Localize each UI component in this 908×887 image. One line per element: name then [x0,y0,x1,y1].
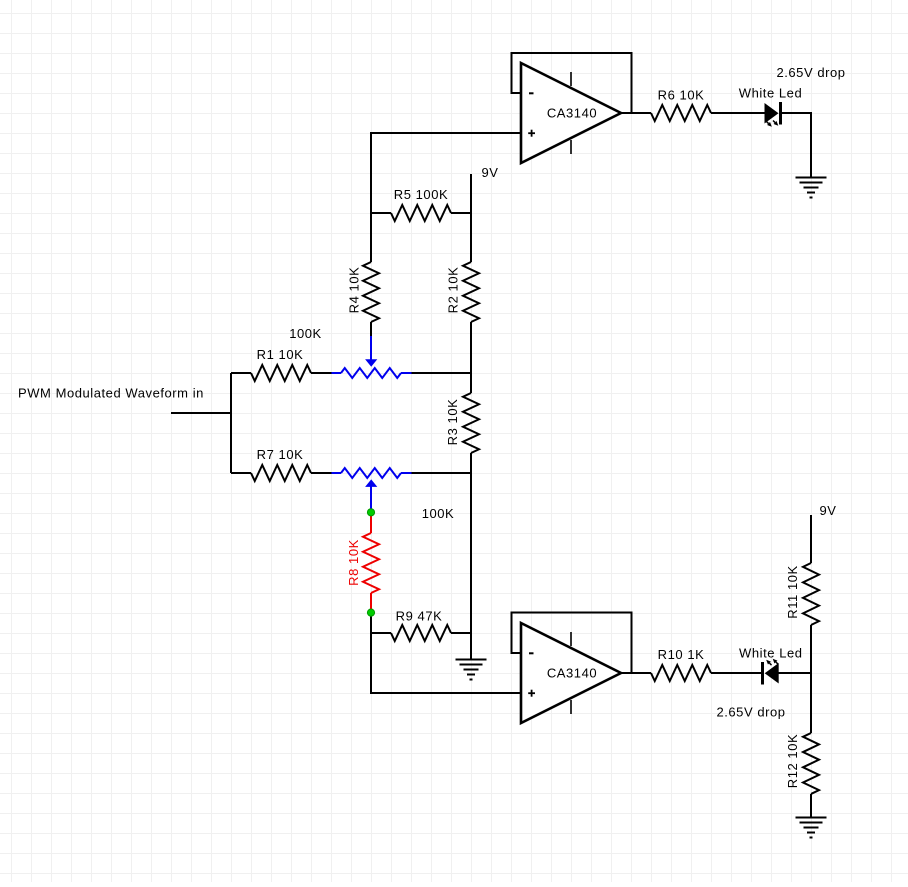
svg-text:CA3140: CA3140 [547,105,597,120]
svg-text:R7 10K: R7 10K [257,447,304,462]
svg-text:R9 47K: R9 47K [396,608,443,623]
svg-text:White Led: White Led [739,645,802,660]
svg-text:2.65V drop: 2.65V drop [776,65,845,80]
svg-text:R2 10K: R2 10K [446,267,461,314]
svg-text:R3 10K: R3 10K [445,399,460,446]
svg-text:R8 10K: R8 10K [346,539,361,586]
svg-text:CA3140: CA3140 [547,665,597,680]
svg-text:9V: 9V [819,503,836,518]
svg-text:100K: 100K [422,506,455,521]
svg-text:R12 10K: R12 10K [785,734,800,788]
svg-text:100K: 100K [289,326,322,341]
svg-text:R4 10K: R4 10K [347,267,362,314]
svg-text:White Led: White Led [739,86,802,101]
svg-text:R10 1K: R10 1K [658,647,705,662]
svg-text:9V: 9V [481,165,498,180]
svg-text:R5 100K: R5 100K [394,187,448,202]
svg-text:R11 10K: R11 10K [785,565,800,618]
svg-text:2.65V drop: 2.65V drop [716,705,785,720]
svg-text:R1 10K: R1 10K [257,347,304,362]
svg-text:R6 10K: R6 10K [658,88,705,103]
svg-text:PWM Modulated Waveform in: PWM Modulated Waveform in [18,386,204,401]
